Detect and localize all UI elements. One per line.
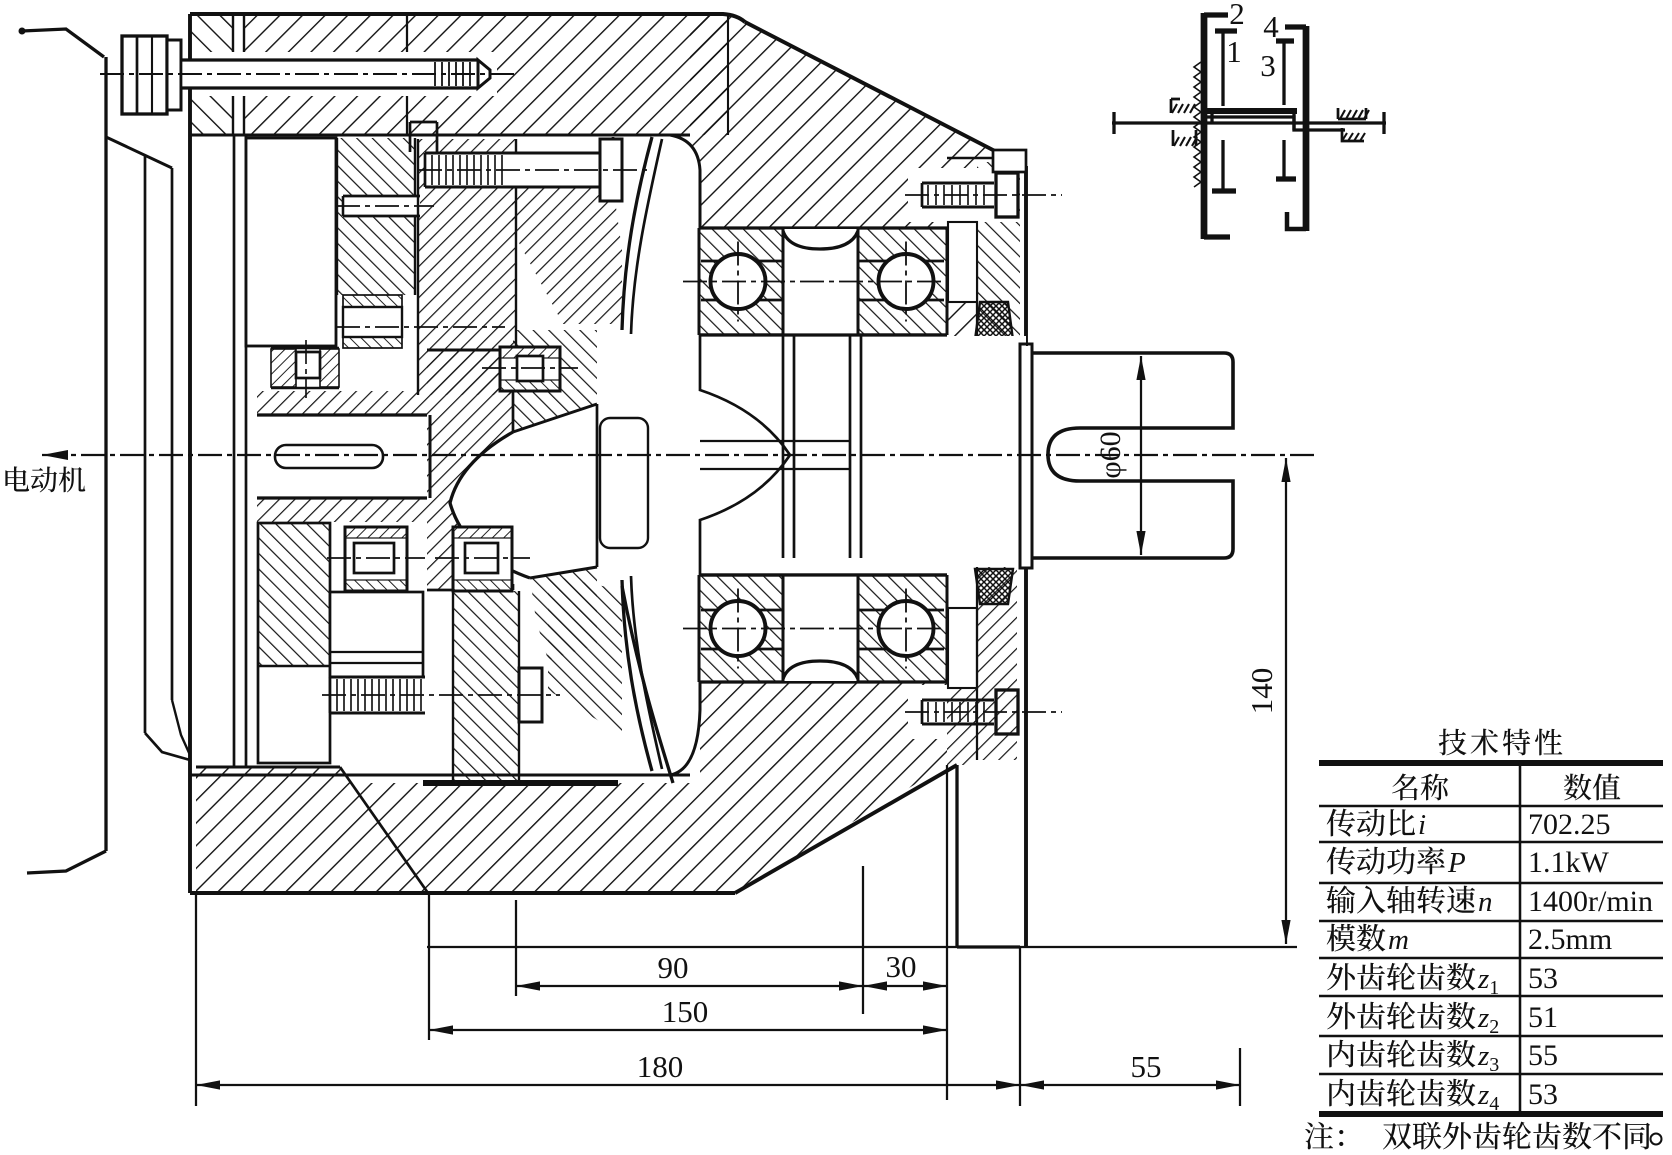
- svg-text:55: 55: [1528, 1039, 1558, 1072]
- svg-text:i: i: [1418, 809, 1426, 841]
- svg-text:55: 55: [1131, 1049, 1162, 1084]
- svg-text:1: 1: [1226, 34, 1242, 69]
- svg-text:m: m: [1388, 924, 1409, 956]
- svg-text:702.25: 702.25: [1528, 808, 1611, 841]
- svg-text:180: 180: [637, 1049, 684, 1084]
- svg-text:φ60: φ60: [1094, 431, 1127, 478]
- svg-text:2.5mm: 2.5mm: [1528, 923, 1612, 956]
- svg-text:90: 90: [658, 950, 689, 985]
- svg-text:53: 53: [1528, 962, 1558, 995]
- svg-text:140: 140: [1244, 668, 1279, 715]
- svg-text:150: 150: [662, 994, 709, 1029]
- svg-text:51: 51: [1528, 1001, 1558, 1034]
- svg-text:P: P: [1447, 847, 1466, 879]
- svg-text:1400r/min: 1400r/min: [1528, 885, 1653, 918]
- svg-text:1.1kW: 1.1kW: [1528, 846, 1610, 879]
- svg-text:n: n: [1478, 886, 1493, 918]
- svg-text:53: 53: [1528, 1078, 1558, 1111]
- svg-text:4: 4: [1263, 9, 1279, 44]
- svg-text:3: 3: [1260, 48, 1276, 83]
- svg-text:30: 30: [886, 949, 917, 984]
- svg-text:2: 2: [1229, 0, 1245, 31]
